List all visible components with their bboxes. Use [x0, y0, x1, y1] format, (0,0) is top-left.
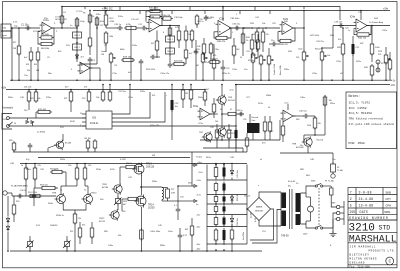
- label C12: [138, 24, 143, 26]
- label IC2a: [219, 18, 225, 21]
- svg-text:R51 220k: R51 220k: [28, 192, 38, 194]
- svg-text:IC3a: IC3a: [193, 106, 199, 108]
- svg-text:R39a: R39a: [284, 69, 290, 71]
- wire pa in: [12, 193, 56, 196]
- rev 2: [350, 197, 391, 201]
- svg-text:R58b: R58b: [266, 95, 272, 97]
- svg-text:T1.6A: T1.6A: [337, 169, 343, 172]
- resistor R36 fb: [278, 39, 293, 42]
- svg-text:5: 5: [350, 204, 352, 208]
- svg-text:IC4a: IC4a: [350, 16, 356, 18]
- diode D14: [6, 196, 9, 224]
- transistor TR10: [82, 193, 93, 205]
- svg-text:CPY: CPY: [386, 198, 392, 201]
- svg-text:C50 10u: C50 10u: [237, 217, 239, 226]
- resistor RS1: [214, 165, 218, 181]
- label TR8 e: [300, 145, 303, 147]
- label R8: [80, 21, 85, 23]
- label IC4a: [350, 16, 356, 18]
- label mid band1: [30, 98, 41, 100]
- wire IC1b out: [160, 25, 180, 27]
- capacitor C14: [139, 59, 144, 80]
- svg-text:R72 4k7: R72 4k7: [38, 109, 47, 111]
- node div: [242, 27, 244, 29]
- svg-text:1M: 1M: [101, 54, 104, 56]
- label R34: [252, 34, 269, 36]
- wire IC2a fb: [214, 28, 231, 38]
- label mains: [296, 182, 308, 235]
- company name: [350, 245, 377, 248]
- resistor R74: [34, 90, 38, 104]
- wire TR6 bus: [221, 136, 223, 141]
- op-amp IC1b stage2: [78, 62, 93, 74]
- resistor R81: [86, 139, 90, 152]
- wire primary top: [301, 186, 316, 193]
- svg-text:C43: C43: [180, 196, 183, 198]
- rev row line 3: [348, 207, 397, 209]
- node IC2b out: [303, 27, 305, 29]
- capacitor C1: [25, 26, 31, 31]
- svg-text:R57a: R57a: [258, 103, 264, 105]
- label IC1a: [44, 19, 50, 22]
- capacitor C23: [171, 85, 174, 141]
- note IC1,3: [349, 101, 371, 104]
- svg-text:C1B 100u: C1B 100u: [230, 18, 240, 20]
- svg-text:IC4,5: MC1458: IC4,5: MC1458: [349, 112, 373, 115]
- svg-text:2SJ50: 2SJ50: [148, 208, 155, 210]
- label bridge: [244, 195, 250, 197]
- label TR12: [99, 218, 106, 223]
- resistor R51: [28, 194, 42, 197]
- transformer T1 primary: [296, 193, 301, 225]
- node reverb drv: [221, 113, 223, 115]
- diode DS1: [230, 165, 233, 181]
- company milton: [350, 258, 377, 261]
- resistor R49: [370, 64, 374, 80]
- wire PA +40V rail: [20, 163, 247, 165]
- wire mid rail -15V: [235, 84, 390, 86]
- svg-text:To Power Amp: To Power Amp: [369, 21, 384, 24]
- svg-text:Fig: 3210-60W: Fig: 3210-60W: [350, 265, 371, 269]
- svg-text:Reverb: Reverb: [252, 116, 260, 119]
- resistor R69: [190, 218, 194, 251]
- transistor TR9: [55, 193, 66, 205]
- label R22: [189, 53, 193, 55]
- svg-text:Reverb: Reverb: [317, 139, 325, 142]
- plug pin N: [337, 211, 340, 214]
- svg-text:To Spk: To Spk: [196, 156, 202, 158]
- wire extra drops: [85, 7, 304, 81]
- wire spk path: [280, 153, 333, 164]
- pot VR6 Gain: [302, 50, 309, 80]
- label pa deg: [70, 224, 85, 233]
- label R75: [65, 87, 88, 89]
- jack J1A Input: [1, 24, 11, 38]
- svg-text:SKB: SKB: [386, 191, 392, 194]
- resistor R7 rail: [60, 14, 67, 25]
- svg-text:D16-19: D16-19: [244, 195, 250, 197]
- label supply caps: [237, 169, 245, 240]
- label R31: [246, 37, 251, 42]
- svg-text:C20a: C20a: [382, 30, 388, 32]
- label TR8: [292, 144, 305, 149]
- svg-text:14: 14: [80, 113, 82, 115]
- jack J5 speaker: [331, 172, 335, 178]
- resistor R11: [88, 28, 92, 55]
- label VR2: [194, 51, 198, 53]
- svg-text:10k 1k8: 10k 1k8: [84, 138, 91, 140]
- wire ct: [252, 210, 281, 244]
- wire pa out: [141, 186, 162, 188]
- resistor R2: [17, 28, 21, 80]
- op-amp IC1b: [147, 19, 163, 32]
- svg-text:820: 820: [213, 55, 216, 57]
- wire mains neutral: [323, 213, 337, 228]
- svg-text:R41 100k: R41 100k: [310, 35, 320, 37]
- resistor R80: [189, 85, 193, 109]
- resistor R64: [281, 122, 285, 142]
- svg-text:Gain: Gain: [298, 48, 303, 50]
- svg-text:C37a: C37a: [128, 97, 134, 99]
- label div col: [246, 51, 256, 57]
- svg-text:C46a: C46a: [108, 245, 114, 247]
- svg-text:R70a: R70a: [46, 97, 52, 99]
- svg-text:R68a: R68a: [160, 245, 166, 247]
- plug pin L: [337, 205, 340, 208]
- wire supply rail 0v: [207, 203, 247, 205]
- svg-text:+15v: +15v: [1, 88, 7, 90]
- resistor RS2: [214, 182, 218, 195]
- resistor R21a: [195, 14, 203, 28]
- svg-text:1k: 1k: [21, 165, 23, 167]
- capacitor C40: [17, 194, 23, 199]
- node fx: [342, 25, 373, 29]
- svg-text:45-0-45: 45-0-45: [288, 181, 296, 183]
- label R83: [9, 140, 12, 142]
- wire PA -40V rail: [10, 250, 262, 252]
- svg-text:TR12: TR12: [99, 218, 105, 220]
- resistor R22: [184, 48, 188, 64]
- svg-text:R23 470k: R23 470k: [146, 69, 156, 71]
- wire emitters: [63, 204, 86, 214]
- svg-text:1M: 1M: [196, 65, 199, 67]
- label R3 values: [27, 70, 39, 72]
- label footswitch: [2, 107, 14, 110]
- mosfet TR13: [132, 163, 144, 176]
- label C44: [183, 235, 188, 237]
- capacitor C21: [352, 36, 355, 80]
- resistor R64b: [78, 222, 82, 244]
- label C16: [271, 40, 274, 42]
- capacitor CS2: [223, 182, 226, 195]
- label C28b: [243, 119, 246, 121]
- svg-text:IC1,3: TL072: IC1,3: TL072: [349, 101, 371, 104]
- wire reverb return: [304, 95, 325, 142]
- label +15v reverb: [229, 90, 235, 92]
- capacitor C9: [88, 57, 93, 80]
- wire reverb out: [238, 113, 244, 115]
- wire IC4a out: [367, 25, 390, 27]
- label TR14: [148, 204, 155, 209]
- wire IC1a up: [61, 7, 63, 29]
- resistor R72: [36, 110, 52, 118]
- resistor R15: [177, 26, 181, 49]
- resistor R82: [93, 139, 97, 152]
- jack J3 FX: [376, 60, 380, 64]
- svg-text:C7 22u: C7 22u: [76, 11, 82, 13]
- note IC2: [349, 107, 367, 110]
- svg-text:LED 1: LED 1: [167, 39, 173, 41]
- label R15: [175, 27, 180, 29]
- svg-text:R58a: R58a: [152, 181, 158, 183]
- svg-text:DRAWING NUMBER: DRAWING NUMBER: [349, 216, 388, 220]
- wire supply left: [206, 165, 208, 245]
- resistor R14: [124, 26, 138, 29]
- svg-text:R62: R62: [296, 119, 299, 121]
- net label +15v: [196, 195, 202, 197]
- label R2: [13, 42, 17, 50]
- node fs bus: [235, 125, 237, 127]
- svg-text:PL1A (PWR AMP): PL1A (PWR AMP): [11, 184, 28, 187]
- svg-text:5W: 5W: [152, 155, 155, 157]
- label C28: [236, 110, 244, 112]
- diode D1: [76, 53, 79, 60]
- svg-text:C18 100p: C18 100p: [174, 17, 184, 19]
- svg-text:2x4700u: 2x4700u: [243, 231, 245, 240]
- svg-text:4k7: 4k7: [206, 89, 209, 91]
- wire mains live: [331, 199, 336, 207]
- svg-text:39k: 39k: [27, 70, 30, 72]
- label R79: [185, 93, 188, 95]
- svg-text:TR8 fitted reversed: TR8 fitted reversed: [349, 116, 383, 120]
- svg-text:Unit: Unit: [252, 119, 256, 122]
- net label +24V DC: [102, 6, 113, 10]
- marshall logo: [349, 233, 397, 244]
- net label 0v: [393, 80, 396, 82]
- wire IC2a feed: [222, 7, 224, 22]
- capacitor C10: [117, 26, 123, 31]
- label mid band2: [64, 98, 85, 100]
- svg-text:STD: STD: [379, 225, 391, 232]
- label C15: [210, 58, 219, 60]
- svg-text:C41a: C41a: [30, 197, 36, 199]
- resistor R60m: [263, 116, 267, 140]
- label F2: [337, 167, 343, 172]
- svg-text:C24: C24: [246, 51, 249, 53]
- svg-text:C28 1u: C28 1u: [236, 110, 244, 112]
- op-amp IC3b: [281, 110, 296, 122]
- node R2 top: [18, 27, 20, 29]
- revision table box: [348, 188, 397, 221]
- lamp LP1: [306, 197, 314, 221]
- resistor R67: [227, 124, 231, 148]
- label IC3b vals: [296, 119, 311, 127]
- transistor TR12: [109, 209, 119, 220]
- company bletchley: [350, 254, 370, 257]
- resistor R26b: [212, 58, 216, 80]
- transistor TR7: [202, 131, 212, 142]
- capacitor CS6: [223, 228, 226, 244]
- wire pa out right: [178, 186, 194, 201]
- node rev: [314, 134, 316, 136]
- node pa out: [141, 186, 143, 188]
- label R29: [237, 49, 240, 51]
- label IC6 pins: [80, 113, 82, 127]
- wire reverb bus: [200, 139, 280, 141]
- svg-text:1k: 1k: [60, 189, 62, 191]
- svg-text:R50a: R50a: [26, 169, 32, 171]
- svg-text:R55a: R55a: [330, 103, 336, 105]
- capacitor C19: [338, 23, 344, 28]
- node gain: [89, 10, 98, 29]
- svg-text:R56a: R56a: [198, 97, 204, 99]
- plug pin E: [337, 217, 340, 220]
- svg-text:C40 1u: C40 1u: [20, 190, 26, 192]
- wire supply rail -15v: [207, 214, 247, 216]
- capacitor CS1: [223, 165, 226, 181]
- svg-text:R5 1M8: R5 1M8: [41, 34, 49, 36]
- label out net: [174, 196, 183, 207]
- wire pot drop: [111, 70, 203, 80]
- capacitor C44: [178, 228, 183, 251]
- note PCB: [349, 142, 365, 145]
- svg-text:22k: 22k: [78, 218, 81, 220]
- label C22: [226, 68, 229, 70]
- svg-text:C3 n6: C3 n6: [55, 16, 60, 18]
- capacitor C28: [238, 112, 244, 117]
- capacitor C47: [28, 143, 33, 152]
- label R55a: [68, 165, 92, 167]
- wire IC6 steps: [112, 85, 236, 127]
- resistor R79: [181, 85, 185, 109]
- capacitor C25b: [194, 49, 199, 55]
- wire supply rail +24v: [207, 179, 247, 181]
- resistor R51a: [24, 164, 28, 197]
- marshall box top: [348, 232, 397, 234]
- svg-text:+24v: +24v: [383, 8, 389, 10]
- svg-text:R72: R72: [82, 98, 85, 100]
- wire IC2a out: [229, 27, 250, 29]
- svg-text:1N4003: 1N4003: [50, 225, 58, 227]
- svg-text:0.1: 0.1: [174, 205, 177, 207]
- rev col line 2: [382, 188, 384, 215]
- figure line: [348, 264, 397, 266]
- rev 7: [350, 190, 391, 194]
- resistor RS4: [214, 205, 218, 215]
- resistor R50: [388, 52, 392, 80]
- resistor R45: [341, 28, 345, 80]
- svg-text:R47: R47: [360, 43, 363, 45]
- jack FS1A: [2, 114, 13, 130]
- svg-text:C22: C22: [226, 68, 229, 70]
- svg-text:2x 4N25: 2x 4N25: [37, 131, 46, 133]
- svg-text:C9: C9: [93, 60, 95, 62]
- net label -15v: [196, 215, 201, 217]
- svg-text:1k8: 1k8: [36, 70, 39, 72]
- resistor R10b: [95, 16, 99, 27]
- transistor TR4: [54, 140, 64, 151]
- label FX: [381, 63, 384, 65]
- resistor R20: [168, 26, 172, 37]
- svg-text:8k2: 8k2: [237, 49, 240, 51]
- svg-text:R53 10k: R53 10k: [40, 184, 49, 186]
- resistor R10: [88, 13, 92, 24]
- label R10: [92, 16, 94, 18]
- svg-text:1M: 1M: [252, 34, 255, 36]
- svg-text:47: 47: [230, 109, 232, 111]
- switch link dashed: [318, 188, 320, 225]
- rev header: [349, 210, 392, 214]
- label optos: [37, 131, 46, 133]
- resistor R61g: [122, 197, 139, 211]
- svg-text:BC184L: BC184L: [296, 147, 305, 149]
- label input values: [13, 16, 61, 23]
- svg-text:IC2a: IC2a: [219, 18, 225, 21]
- svg-text:Treble 220k: Treble 220k: [273, 63, 276, 75]
- svg-text:C16a 22n: C16a 22n: [160, 73, 170, 75]
- wire supply right col: [246, 165, 248, 245]
- company england: [350, 261, 366, 264]
- svg-text:R77a 47k: R77a 47k: [150, 125, 160, 127]
- svg-text:1u: 1u: [348, 30, 350, 32]
- fuse F2: [331, 162, 336, 172]
- net label +24v end: [383, 8, 389, 10]
- diode D15: [6, 224, 9, 231]
- svg-text:C19 10n: C19 10n: [334, 22, 343, 24]
- svg-text:C26 22n: C26 22n: [316, 41, 325, 43]
- label IC3a: [193, 106, 199, 108]
- net label -24v: [196, 227, 201, 229]
- label R60m: [262, 143, 266, 145]
- wire drops A1: [120, 7, 290, 11]
- label R6: [41, 48, 50, 50]
- svg-text:BC184: BC184: [102, 187, 109, 189]
- wire supply rail -24v: [207, 226, 247, 228]
- svg-text:47k: 47k: [266, 34, 269, 36]
- label PL1A: [11, 184, 28, 187]
- note TR8: [349, 116, 383, 120]
- label R47: [360, 43, 363, 45]
- svg-text:+24V DC: +24V DC: [102, 6, 113, 10]
- wire TR5 rail: [221, 84, 223, 96]
- label R60g: [126, 163, 132, 165]
- label TR13: [146, 163, 155, 168]
- svg-text:2SK135: 2SK135: [146, 167, 155, 169]
- svg-text:IC2: C4558: IC2: C4558: [349, 107, 367, 110]
- wire tone bus: [244, 27, 280, 29]
- resistor R35: [261, 28, 265, 52]
- svg-text:220k: 220k: [307, 125, 311, 127]
- rev 5: [350, 204, 391, 208]
- capacitor C40a: [33, 164, 37, 189]
- svg-text:C11a: C11a: [112, 73, 118, 75]
- svg-text:R6 820k: R6 820k: [41, 48, 50, 50]
- wire bridge right: [250, 209, 274, 240]
- svg-text:TR11: TR11: [102, 184, 108, 186]
- svg-text:BC212: BC212: [99, 221, 106, 223]
- svg-text:22n: 22n: [271, 40, 274, 42]
- label R81: [84, 138, 91, 140]
- svg-text:R60 1k: R60 1k: [126, 163, 132, 165]
- svg-text:R16a 1M: R16a 1M: [162, 15, 170, 17]
- wire preamp out bus: [13, 151, 247, 153]
- svg-text:MILTON KEYNES: MILTON KEYNES: [350, 258, 377, 261]
- svg-text:C11 n47: C11 n47: [131, 19, 140, 21]
- label VR7: [315, 47, 330, 57]
- svg-text:JIM MARSHALL: JIM MARSHALL: [350, 245, 377, 248]
- label R48: [375, 47, 380, 49]
- resistor R52: [12, 196, 16, 222]
